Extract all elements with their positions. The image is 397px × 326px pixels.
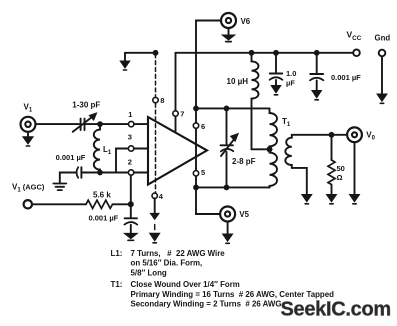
pin 5 (193, 168, 205, 177)
svg-text:T1:: T1: (111, 280, 123, 289)
wire L1 bottom to pin2 (83, 172, 129, 174)
pin 7 wire to rail (175, 53, 177, 132)
svg-text:1.0: 1.0 (286, 69, 296, 78)
pin 8 (153, 96, 165, 105)
Vcc rail wire (176, 52, 354, 54)
svg-text:0.001 µF: 0.001 µF (56, 153, 86, 162)
svg-text:0.001 µF: 0.001 µF (89, 214, 119, 223)
wire pin2 down to AGC node (130, 175, 132, 204)
wire AGC to R1 (32, 203, 86, 205)
inductor L2 10 uH (227, 53, 259, 150)
resistor R2 50 ohm (328, 135, 345, 195)
svg-text:T1: T1 (282, 117, 291, 128)
pin 3 riser wire (116, 149, 128, 173)
terminal V1 (AGC) (12, 183, 45, 209)
svg-text:V6: V6 (241, 17, 251, 26)
pin 6 (193, 122, 205, 131)
svg-text:µF: µF (286, 79, 295, 88)
connector V5 (220, 207, 250, 222)
pin 3 (128, 133, 148, 152)
inductor L1 (94, 127, 112, 173)
node rail at C6 (314, 50, 320, 56)
node rail at L2 (249, 50, 255, 56)
svg-text:5.6 k: 5.6 k (93, 191, 111, 200)
node at 50 ohm top (329, 132, 335, 138)
capacitor C1 1-30 pF variable (72, 100, 100, 132)
svg-text:V5: V5 (239, 210, 249, 219)
wire V1 to C1 (36, 123, 80, 125)
svg-text:5: 5 (201, 168, 205, 177)
capacitor C5 1.0 uF (270, 53, 297, 95)
ground at top-left segment (120, 53, 130, 70)
node AGC junction (128, 201, 134, 207)
wire R1 to node (113, 203, 131, 205)
ground below R2 (327, 195, 337, 204)
svg-text:7: 7 (180, 110, 184, 119)
node T1 center tap (267, 146, 273, 152)
ground below C2 (3-bar) (53, 184, 66, 191)
terminal Vcc (347, 30, 362, 57)
terminal Gnd (375, 34, 391, 104)
op-amp U1 triangle (148, 117, 207, 185)
svg-text:on 5/16″ Dia. Form,: on 5/16″ Dia. Form, (131, 259, 203, 268)
wire V0 down (354, 142, 356, 194)
svg-text:Close Wound Over 1/4″ Form: Close Wound Over 1/4″ Form (131, 280, 240, 289)
svg-text:3: 3 (128, 133, 132, 142)
ground below V0 (350, 195, 360, 204)
dashed shield line (155, 54, 157, 193)
wire tank bottom (196, 186, 270, 188)
svg-text:0.001 µF: 0.001 µF (331, 73, 361, 82)
node rail at C5 (273, 50, 279, 56)
wire secondary top to V0 (292, 134, 347, 136)
svg-text:2-8 pF: 2-8 pF (232, 157, 256, 166)
wire tank top (196, 107, 270, 109)
dashed shield tail + arrow (150, 225, 160, 243)
wire V5 drop (196, 187, 220, 214)
connector V1 (21, 103, 36, 132)
resistor R1 5.6k (86, 191, 113, 209)
wire top-left ground segment (125, 52, 156, 54)
svg-text:SeekIC.com: SeekIC.com (281, 299, 391, 321)
transformer T1 secondary (285, 135, 292, 168)
wire C1 to pin1, node at L1 top (86, 123, 129, 125)
svg-text:4: 4 (159, 192, 164, 201)
svg-text:V0: V0 (366, 131, 375, 142)
node tank bottom left (193, 185, 199, 191)
note text L1 (111, 249, 226, 278)
svg-text:Gnd: Gnd (375, 34, 391, 43)
svg-text:10 µH: 10 µH (227, 77, 249, 86)
connector V0 (347, 127, 376, 142)
node C4 bottom (224, 185, 230, 191)
ground below V5 (223, 222, 233, 244)
wire V6 down to tank top (196, 21, 221, 109)
ground below V6 (arrow bars) (222, 28, 235, 42)
capacitor C6 0.001 uF (rail) (310, 53, 361, 100)
node C4 top (224, 106, 230, 112)
svg-text:5/8″ Long: 5/8″ Long (131, 268, 167, 277)
capacitor C4 2-8 pF variable (221, 108, 256, 187)
pin 7 (173, 110, 185, 119)
wire secondary bottom (292, 168, 307, 195)
wire L2 to T1 center tap (252, 148, 267, 150)
svg-text:Primary Winding = 16 Turns #: Primary Winding = 16 Turns # 26 AWG, Cen… (131, 290, 335, 299)
svg-text:50: 50 (337, 164, 345, 173)
svg-text:1: 1 (128, 110, 132, 119)
ground below secondary (302, 195, 312, 204)
svg-text:Secondary Winding = 2 Turns #: Secondary Winding = 2 Turns # 26 AWG (131, 300, 282, 309)
svg-text:7 Turns, # 22 AWG Wire: 7 Turns, # 22 AWG Wire (131, 249, 226, 258)
ground below C3 (arrow bars) (124, 233, 137, 240)
svg-text:L1: L1 (103, 145, 112, 156)
svg-text:L1:: L1: (111, 249, 123, 258)
node tank top left (193, 106, 199, 112)
svg-text:VCC: VCC (347, 30, 362, 43)
pin 2 (128, 157, 148, 175)
svg-text:1-30 pF: 1-30 pF (72, 100, 100, 109)
connector V6 (221, 13, 251, 28)
ground below V1 (23, 132, 33, 146)
svg-text:2: 2 (128, 157, 132, 166)
svg-text:Ω: Ω (337, 173, 343, 182)
pin 4 (152, 192, 164, 201)
note text T1 (111, 280, 335, 309)
svg-text:6: 6 (201, 122, 205, 131)
svg-text:V1 (AGC): V1 (AGC) (12, 183, 45, 194)
capacitor C3 0.001 uF (AGC) (89, 207, 138, 234)
wire pins 6-5 vertical (195, 108, 197, 187)
pin 1 (128, 110, 148, 127)
svg-text:V1: V1 (24, 103, 33, 114)
svg-text:8: 8 (160, 96, 164, 105)
capacitor C2 0.001 uF (input) (56, 153, 86, 183)
ground below pin 4 (150, 199, 159, 220)
node L1 bottom (97, 170, 103, 176)
transformer T1 primary (270, 108, 291, 187)
node dashed line top (153, 50, 159, 56)
